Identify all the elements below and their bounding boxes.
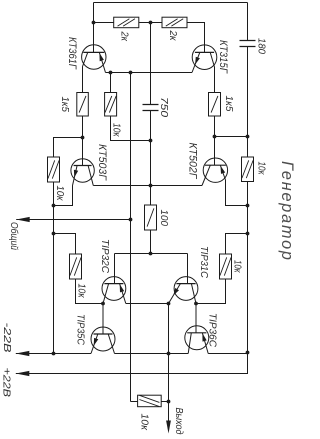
svg-text:1к5: 1к5 <box>59 97 70 113</box>
node O dot base row / R9 <box>149 252 153 256</box>
node A dot Q1 base / R1 <box>92 21 96 25</box>
node Q dot Q6 emitter / output <box>167 302 171 306</box>
capacitor C1 180 <box>240 41 256 47</box>
wire common rail <box>16 219 130 221</box>
node R dot Q6 collector / Q8 base <box>194 302 198 306</box>
wire R11 to output <box>161 401 168 403</box>
node V dot output / R11 <box>167 400 171 404</box>
svg-text:КТ502Г: КТ502Г <box>187 143 199 180</box>
wire R8 bottom <box>76 279 104 304</box>
resistor R3 1k5 <box>77 93 89 117</box>
wire Q4 base lead <box>214 137 216 166</box>
wire R1 row <box>94 22 114 24</box>
svg-text:Генератор: Генератор <box>278 161 296 260</box>
wire to R10 <box>226 234 248 255</box>
wire R10 bottom <box>196 279 226 304</box>
wire Q5 emitter link <box>126 303 169 305</box>
transistor Q2 KT315G NPN <box>192 45 217 70</box>
wire TIP base row <box>115 254 188 284</box>
svg-text:+22В: +22В <box>0 368 11 398</box>
wire R4 bottom link <box>111 116 151 141</box>
resistor R1 2k <box>114 17 139 28</box>
wire Q8 base lead <box>195 304 197 333</box>
svg-text:КТ361Г: КТ361Г <box>66 37 78 70</box>
svg-text:TIP35C: TIP35C <box>75 314 86 346</box>
node P dot Q5 collector / Q7 base <box>101 302 105 306</box>
node S dot -22V / left bus <box>52 352 56 356</box>
wire Q2 collector to R5 <box>214 67 216 93</box>
node F dot Q3 base / R3 / R6 <box>81 136 85 140</box>
svg-text:2к: 2к <box>167 30 178 42</box>
transistor Q6 TIP31C NPN <box>174 277 198 301</box>
resistor R2 2k <box>162 17 187 28</box>
svg-text:10к: 10к <box>139 414 150 432</box>
wire emitter link <box>106 72 193 74</box>
node D dot emitter/bus <box>129 71 133 75</box>
transistor Q1 KT361G PNP <box>82 45 106 69</box>
wire Q4 branch <box>214 116 216 137</box>
wire Q8 emitter to bus <box>208 353 247 355</box>
node N dot common bus <box>129 218 133 222</box>
wire output vertical <box>168 304 170 421</box>
wire Q3 base lead <box>82 138 84 166</box>
wire Q1 base feed <box>93 3 95 53</box>
svg-text:1к5: 1к5 <box>223 96 234 112</box>
transistor Q8 TIP36C PNP <box>185 326 209 350</box>
resistor R10 10k <box>220 254 232 279</box>
svg-text:750: 750 <box>158 97 169 117</box>
svg-text:10к: 10к <box>256 162 267 176</box>
resistor R9 100 <box>145 205 157 230</box>
svg-text:100: 100 <box>158 210 169 227</box>
svg-text:КТ315Г: КТ315Г <box>217 40 229 74</box>
wire bus to R11 <box>131 401 138 403</box>
svg-text:2к: 2к <box>119 31 130 42</box>
svg-text:TIP36C: TIP36C <box>206 313 217 348</box>
resistor R11 10k output <box>138 395 162 407</box>
node E dot R4/C2 bottom <box>149 139 153 143</box>
wire C2 bottom bus <box>150 111 152 206</box>
resistor R6 10k <box>48 157 60 182</box>
svg-text:Общий: Общий <box>8 222 20 250</box>
arrow +22V <box>16 371 29 376</box>
wire R1-R2 <box>139 22 162 24</box>
wire to R8 <box>54 234 76 255</box>
node G dot Q4 base / R5 / bus <box>213 135 217 139</box>
resistor R7 10k <box>242 157 254 182</box>
wire Q3 branch <box>82 116 84 138</box>
transistor Q4 KT502G PNP <box>203 158 227 182</box>
node I dot left bus / Q3 emitter <box>52 204 56 208</box>
arrow output <box>166 421 171 434</box>
wire C2 top <box>150 23 152 105</box>
svg-text:Выход: Выход <box>173 408 184 435</box>
transistor Q5 TIP32C PNP <box>102 277 126 301</box>
node J dot left bus / R8 <box>52 232 56 236</box>
wire C1 top <box>247 3 249 41</box>
svg-text:10к: 10к <box>232 260 243 273</box>
wire left bus <box>53 182 55 354</box>
transistor Q7 TIP35C NPN <box>91 327 115 351</box>
wire Q4 emitter down <box>226 180 248 206</box>
node H dot right bus <box>246 135 250 139</box>
node L dot right bus / Q4 emitter <box>246 204 250 208</box>
wire to R6 <box>54 138 83 158</box>
wire right bus corner +22V <box>16 353 248 374</box>
svg-text:180: 180 <box>256 38 267 54</box>
node B dot R1/R2/C2 <box>149 21 153 25</box>
node K dot collectors / R9 <box>149 184 153 188</box>
svg-text:-22В: -22В <box>1 323 12 354</box>
wire R4 top <box>110 73 112 93</box>
wire common bus vertical <box>130 73 132 402</box>
svg-text:10к: 10к <box>111 123 122 137</box>
resistor R4 10k <box>105 93 117 117</box>
wire R2 to Q2 base <box>187 23 205 53</box>
wire collector link <box>93 185 202 187</box>
wire Q3 emitter down <box>54 186 73 206</box>
resistor R5 1k5 <box>209 93 221 117</box>
transistor Q3 KT503G NPN <box>71 159 94 182</box>
wire Q7 base lead <box>102 304 104 335</box>
node T dot output row <box>167 352 171 356</box>
svg-text:10к: 10к <box>76 284 87 299</box>
svg-text:TIP32C: TIP32C <box>99 239 110 274</box>
svg-text:TIP31C: TIP31C <box>198 246 209 279</box>
wire Q1 collector to R3 <box>82 67 84 93</box>
wire G to bus <box>215 136 248 138</box>
node M dot right bus / R10 <box>246 232 250 236</box>
wire -22V rail <box>16 353 91 355</box>
node U dot right bus / +22V <box>246 351 250 355</box>
wire right bus upper <box>247 47 249 158</box>
capacitor C2 750 <box>143 105 159 111</box>
resistor R8 10k <box>70 254 82 279</box>
node C dot emitter/R4 <box>109 71 113 75</box>
wire R9 bottom <box>150 230 152 254</box>
arrow -22V <box>16 351 29 356</box>
svg-text:10к: 10к <box>54 186 65 202</box>
wire right bus mid <box>247 182 249 353</box>
wire top rail <box>94 2 248 4</box>
svg-text:КТ503Г: КТ503Г <box>96 144 108 181</box>
wire output row <box>115 353 189 355</box>
arrow common <box>16 217 30 222</box>
